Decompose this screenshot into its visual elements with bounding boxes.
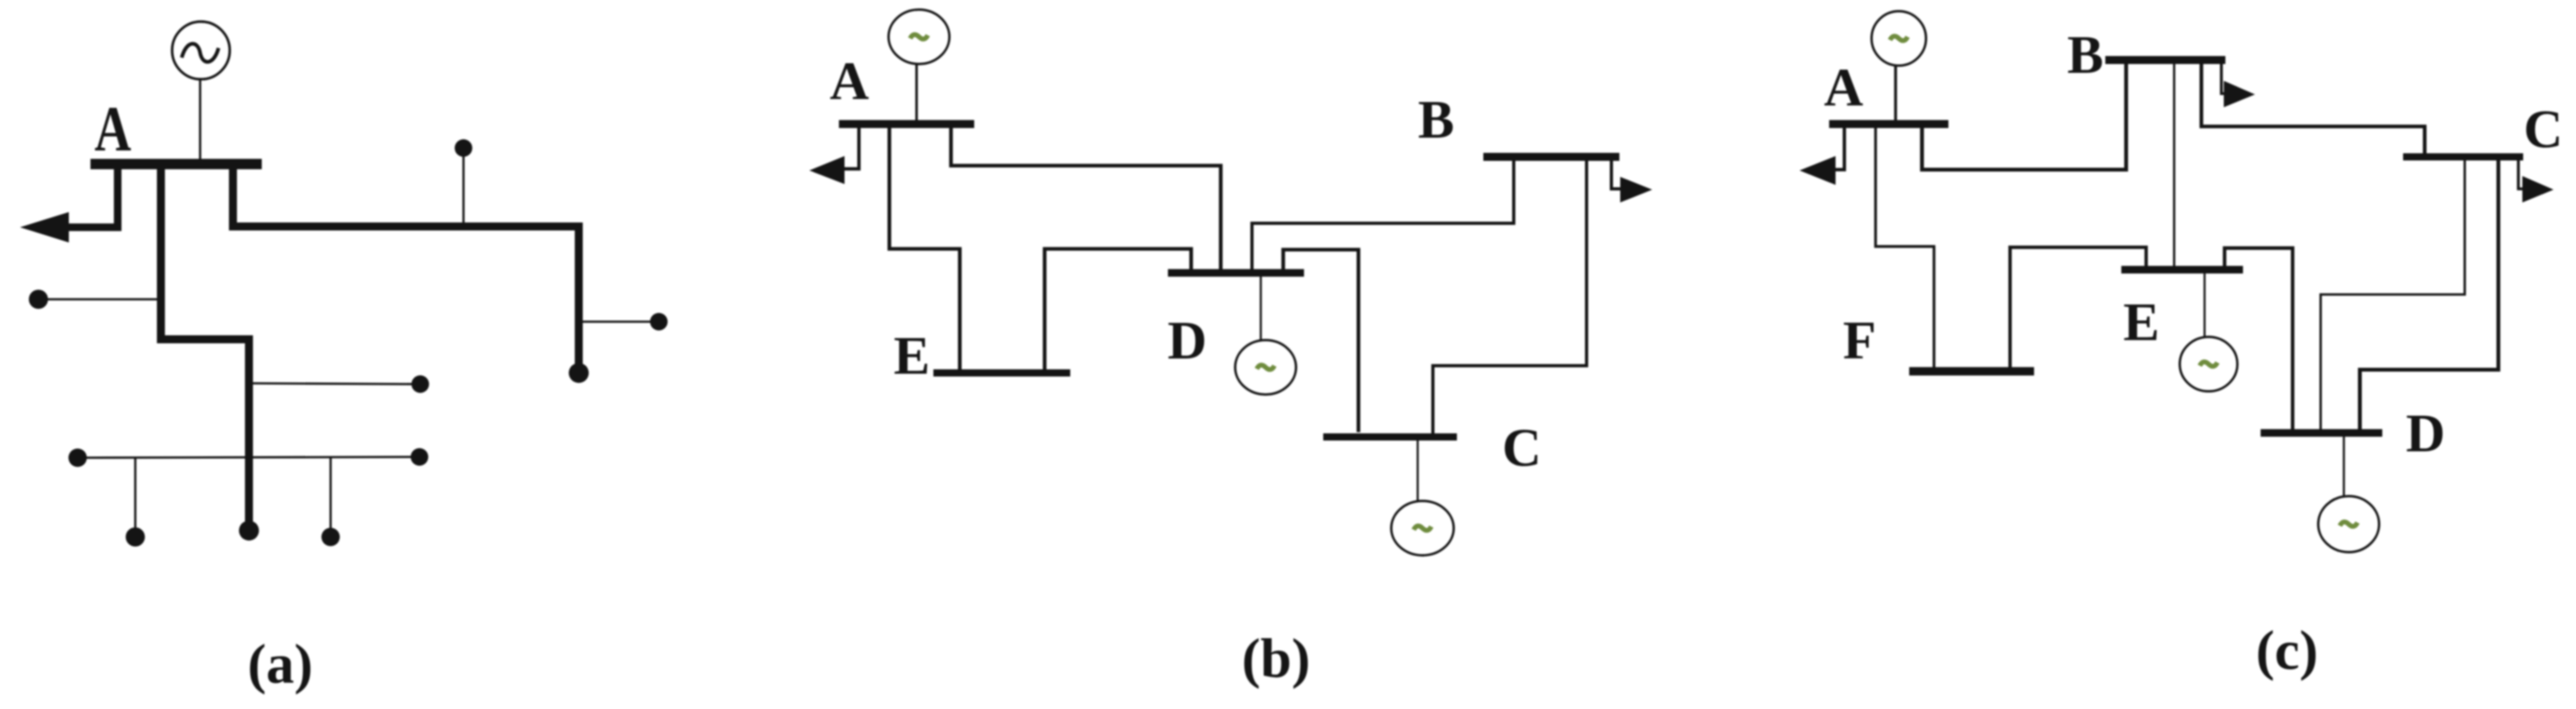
node dot west lateral	[29, 290, 48, 309]
bus C (c)	[2403, 154, 2523, 161]
wire generator lead to bus A (c)	[1894, 66, 1897, 122]
generator at bus D (b)	[1235, 340, 1296, 395]
wire stub down right	[330, 458, 332, 535]
bus F (c)	[1909, 367, 2034, 376]
wire stub down left	[134, 459, 137, 535]
wire lateral to right node	[582, 321, 655, 323]
generator at bus E (c)	[2180, 337, 2237, 391]
wire tap to east feeder	[463, 152, 465, 226]
node dot end of east feeder	[569, 363, 589, 383]
bus C (b)	[1323, 434, 1457, 441]
node dot right of east feeder end	[650, 313, 668, 330]
generator at bus A (b)	[889, 10, 949, 64]
generator at bus D (c)	[2318, 496, 2379, 552]
svg-text:E: E	[2123, 291, 2159, 352]
wire bus A to load arrow (b)	[839, 124, 859, 169]
node dot left stub	[126, 527, 145, 547]
svg-text:C: C	[2523, 98, 2562, 159]
wire bus B to load arrow (b)	[1611, 157, 1622, 189]
wire line B-E (c)	[2173, 62, 2176, 266]
wire line C-B (b)	[1433, 158, 1587, 435]
wire line D-C (b)	[1283, 250, 1358, 432]
bus E (b)	[933, 370, 1070, 377]
wire generator lead to bus A (b)	[915, 64, 917, 122]
bus D (c)	[2261, 429, 2382, 437]
bus B (b)	[1483, 153, 1619, 161]
wire generator lead at D (c)	[2343, 436, 2345, 497]
svg-text:A: A	[1824, 57, 1863, 118]
svg-text:E: E	[893, 325, 929, 386]
load arrow at A (c)	[1800, 156, 1836, 185]
wire line E-D (b)	[1045, 249, 1191, 371]
wire line A-D (b)	[951, 124, 1221, 270]
wire generator lead at D (b)	[1260, 276, 1262, 341]
wire lateral from south feeder to node	[251, 383, 416, 384]
load arrow at B (b)	[1620, 177, 1652, 202]
generator at bus A (c)	[1872, 11, 1926, 66]
wire generator lead to bus A	[199, 79, 202, 160]
svg-text:D: D	[2405, 403, 2445, 463]
bus D (b)	[1168, 269, 1304, 277]
bus A	[90, 159, 262, 170]
wire bus A to load	[48, 164, 118, 227]
wire line A-E (b)	[889, 124, 960, 371]
bus B (c)	[2105, 56, 2225, 64]
load arrow at A (b)	[809, 156, 845, 184]
svg-text:A: A	[829, 50, 869, 111]
wire feeder A east (bus A down, long right, down to node)	[233, 164, 579, 368]
node dot left end of long lateral	[69, 449, 87, 467]
wire bus C to load arrow (c)	[2518, 157, 2523, 189]
node dot right stub	[322, 528, 340, 547]
node dot right end of long lateral	[411, 448, 428, 466]
svg-text:B: B	[1418, 89, 1454, 150]
node dot end of south feeder	[239, 521, 259, 541]
generator G-A	[172, 22, 230, 79]
bus A (b)	[839, 120, 974, 128]
bus E (c)	[2121, 266, 2243, 274]
svg-text:(c): (c)	[2256, 620, 2318, 682]
wire line D-B (b)	[1252, 158, 1514, 273]
wire feeder A south (bus A down, jog right, to node)	[161, 164, 249, 528]
wire line C-D thick (c)	[2360, 157, 2498, 431]
wire line A-B (c)	[1922, 62, 2126, 170]
wire generator lead at E (c)	[2204, 273, 2206, 338]
wire long bottom lateral	[79, 457, 416, 458]
load arrow at A	[20, 212, 69, 242]
svg-text:C: C	[1502, 417, 1541, 478]
bus A (c)	[1829, 120, 1948, 128]
svg-text:D: D	[1167, 310, 1206, 371]
svg-text:A: A	[94, 94, 131, 165]
svg-text:(a): (a)	[247, 634, 313, 695]
node dot tap above east feeder	[455, 139, 472, 157]
wire line B-C (c)	[2201, 62, 2425, 155]
wire bus A to load arrow (c)	[1828, 124, 1844, 170]
wire line E-D (c)	[2225, 248, 2293, 431]
wire bus B to load arrow (c)	[2221, 60, 2225, 94]
node dot end of mid lateral	[411, 375, 429, 393]
generator at bus C (b)	[1391, 501, 1454, 555]
svg-text:(b): (b)	[1242, 628, 1310, 690]
svg-text:F: F	[1843, 310, 1876, 371]
svg-text:B: B	[2067, 24, 2103, 85]
load arrow at C (c)	[2522, 176, 2554, 202]
wire line F-E (c)	[2010, 247, 2146, 368]
load arrow at B (c)	[2224, 81, 2255, 107]
wire line A-F (c)	[1876, 124, 1934, 368]
wire generator lead at C (b)	[1417, 440, 1419, 502]
wire line C-D thin (c)	[2321, 157, 2465, 431]
wire west lateral to south feeder	[42, 298, 160, 301]
